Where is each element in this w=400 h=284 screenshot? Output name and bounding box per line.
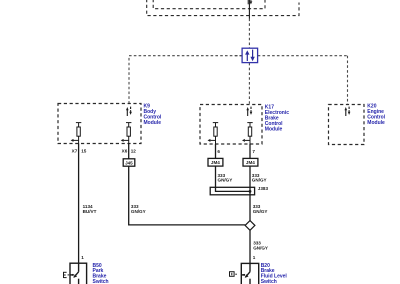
svg-text:Switch: Switch bbox=[261, 279, 277, 284]
svg-text:BU/VT: BU/VT bbox=[83, 209, 97, 214]
svg-text:JM4: JM4 bbox=[211, 160, 220, 165]
svg-text:GN/GY: GN/GY bbox=[218, 178, 233, 183]
svg-text:Module: Module bbox=[144, 120, 162, 126]
svg-text:J383: J383 bbox=[258, 186, 269, 191]
svg-text:Module: Module bbox=[367, 120, 385, 126]
svg-text:15: 15 bbox=[81, 148, 87, 153]
svg-text:J45: J45 bbox=[125, 160, 133, 165]
svg-text:12: 12 bbox=[131, 148, 137, 153]
svg-text:7: 7 bbox=[252, 149, 255, 154]
svg-text:GN/GY: GN/GY bbox=[252, 178, 267, 183]
svg-text:X6: X6 bbox=[122, 148, 128, 153]
svg-text:Module: Module bbox=[265, 127, 283, 133]
svg-text:1: 1 bbox=[253, 255, 256, 260]
svg-text:GN/GY: GN/GY bbox=[253, 209, 268, 214]
svg-text:X7: X7 bbox=[72, 148, 78, 153]
svg-text:1: 1 bbox=[81, 255, 84, 260]
svg-text:JM4: JM4 bbox=[246, 160, 255, 165]
svg-text:Switch: Switch bbox=[93, 279, 109, 284]
svg-text:GN/GY: GN/GY bbox=[253, 245, 268, 250]
svg-text:GN/GY: GN/GY bbox=[131, 209, 146, 214]
svg-text:6: 6 bbox=[217, 149, 220, 154]
